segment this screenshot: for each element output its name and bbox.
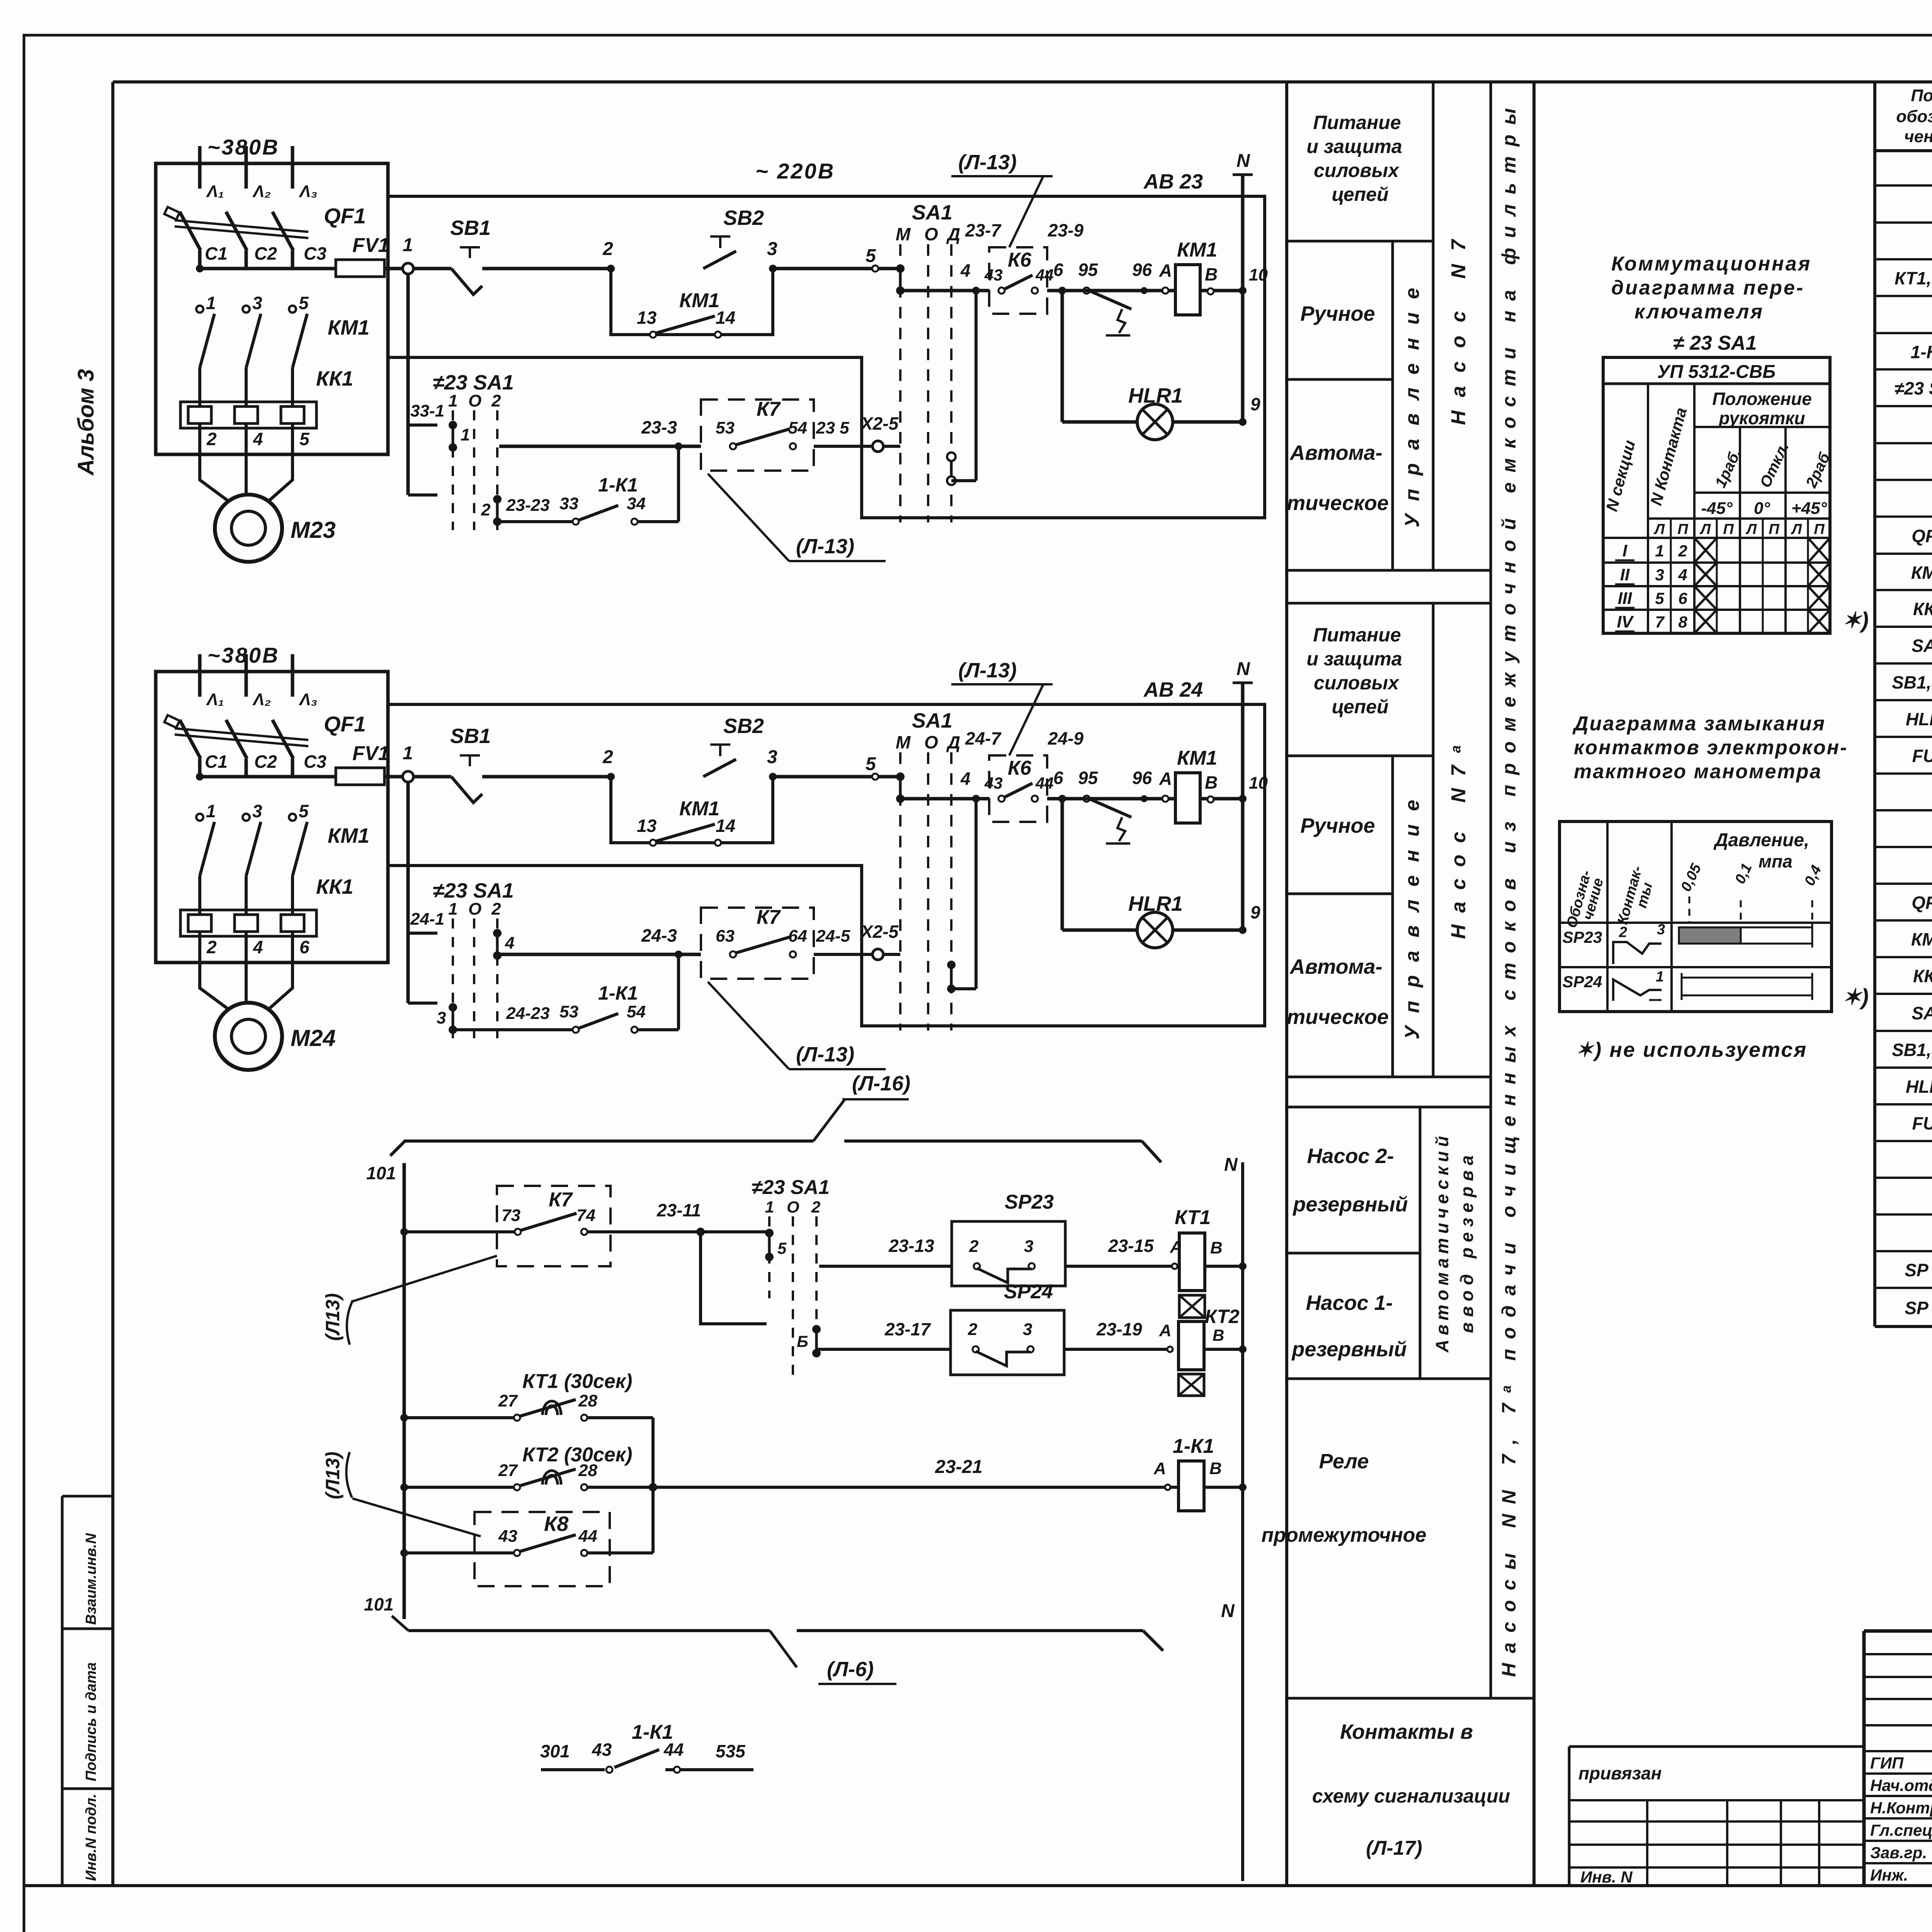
svg-text:SВ2: SВ2 bbox=[723, 206, 764, 230]
svg-text:Н.Контр: Н.Контр bbox=[1870, 1799, 1932, 1817]
svg-text:N: N bbox=[1236, 151, 1250, 171]
svg-text:24-3: 24-3 bbox=[641, 925, 677, 946]
svg-text:96: 96 bbox=[1132, 768, 1152, 788]
svg-text:SР 23: SР 23 bbox=[1905, 1260, 1932, 1280]
svg-text:контактов электрокон-: контактов электрокон- bbox=[1574, 736, 1848, 759]
node 4 junction М24 bbox=[972, 795, 980, 803]
svg-text:Насос 2-: Насос 2- bbox=[1307, 1145, 1394, 1168]
svg-text:П: П bbox=[1769, 521, 1779, 537]
pressure switch SP23 box bbox=[952, 1221, 1065, 1286]
svg-text:14: 14 bbox=[716, 816, 735, 836]
SA1 contact M М24 bbox=[896, 772, 905, 781]
svg-text:и защита: и защита bbox=[1306, 136, 1402, 157]
svg-text:Л: Л bbox=[1653, 521, 1665, 537]
svg-text:Питание: Питание bbox=[1313, 624, 1401, 646]
svg-text:43: 43 bbox=[984, 774, 1003, 792]
svg-text:Автома-: Автома- bbox=[1289, 955, 1382, 978]
svg-text:4: 4 bbox=[253, 937, 263, 957]
label column grid bbox=[1285, 82, 1288, 1886]
svg-text:КМ1: КМ1 bbox=[679, 798, 719, 820]
svg-text:резервный: резервный bbox=[1292, 1193, 1408, 1216]
power enclosure box М24 bbox=[156, 672, 388, 963]
SA1 contact D М23 bbox=[947, 452, 956, 461]
svg-text:34: 34 bbox=[627, 494, 646, 513]
svg-text:силовых: силовых bbox=[1314, 160, 1400, 181]
svg-text:(Л-13): (Л-13) bbox=[796, 1043, 854, 1066]
svg-text:3: 3 bbox=[1655, 566, 1664, 584]
node 2 М24 bbox=[607, 773, 615, 781]
svg-text:Λ₃: Λ₃ bbox=[299, 690, 317, 709]
svg-text:101: 101 bbox=[364, 1594, 394, 1614]
switch diagram position columns bbox=[1739, 427, 1741, 633]
svg-text:4: 4 bbox=[960, 769, 971, 789]
wire C1 bus to fuse М23 bbox=[196, 265, 204, 272]
svg-text:N: N bbox=[1236, 659, 1250, 679]
wires to motor М23 bbox=[200, 454, 228, 501]
switch diagram L/P subcolumns bbox=[1670, 519, 1672, 633]
wire C1 bus to fuse М24 bbox=[196, 773, 204, 781]
svg-text:101: 101 bbox=[366, 1163, 396, 1183]
svg-text:М: М bbox=[896, 732, 911, 752]
svg-text:Л: Л bbox=[1699, 521, 1711, 537]
svg-text:(Л-13): (Л-13) bbox=[958, 659, 1017, 682]
svg-text:2: 2 bbox=[602, 239, 613, 259]
manometer diagram table frame bbox=[1560, 821, 1832, 1012]
svg-text:Ручное: Ручное bbox=[1300, 302, 1375, 325]
node 6 М23 bbox=[1058, 287, 1066, 294]
relay contact K6 dashed box М24 bbox=[989, 755, 1047, 822]
SA1 contact D М24 bbox=[947, 961, 956, 969]
svg-text:Автоматический: Автоматический bbox=[1432, 1136, 1452, 1353]
svg-text:КТ1,КТ2: КТ1,КТ2 bbox=[1895, 268, 1932, 288]
svg-text:23-11: 23-11 bbox=[656, 1200, 701, 1220]
svg-text:П: П bbox=[1677, 521, 1688, 537]
title block small revision rows bbox=[1864, 1653, 1932, 1655]
wire 23-19 bbox=[1064, 1348, 1173, 1351]
svg-text:Насос 1-: Насос 1- bbox=[1306, 1291, 1393, 1315]
svg-text:АВ 24: АВ 24 bbox=[1143, 678, 1203, 701]
svg-text:НLR1: НLR1 bbox=[1906, 1077, 1932, 1097]
svg-text:SА1: SА1 bbox=[1912, 1003, 1932, 1023]
svg-text:23-3: 23-3 bbox=[641, 417, 677, 437]
svg-text:24-9: 24-9 bbox=[1048, 728, 1083, 748]
svg-text:А: А bbox=[1153, 1459, 1166, 1478]
svg-text:Диаграмма замыкания: Диаграмма замыкания bbox=[1572, 713, 1826, 735]
svg-text:КМ1: КМ1 bbox=[1177, 747, 1217, 769]
svg-text:тактного манометра: тактного манометра bbox=[1574, 760, 1822, 783]
inner frame bottom line bbox=[24, 1884, 1932, 1887]
contactor KM1 main contacts М23 bbox=[196, 306, 203, 313]
node KT rows junction bbox=[649, 1483, 657, 1492]
svg-text:6: 6 bbox=[1053, 768, 1063, 788]
svg-text:13: 13 bbox=[637, 816, 657, 836]
svg-text:2: 2 bbox=[811, 1198, 820, 1216]
pressure switch SP24 box bbox=[951, 1310, 1064, 1375]
svg-text:43: 43 bbox=[984, 266, 1003, 284]
svg-text:Насос N7ᵃ: Насос N7ᵃ bbox=[1447, 745, 1470, 939]
svg-text:КТ1 (30сек): КТ1 (30сек) bbox=[522, 1370, 632, 1393]
svg-text:1-К1: 1-К1 bbox=[1911, 342, 1932, 362]
svg-text:В: В bbox=[1209, 1459, 1222, 1478]
svg-text:≠23 SА1: ≠23 SА1 bbox=[433, 371, 514, 394]
svg-text:2: 2 bbox=[206, 429, 217, 449]
svg-text:(Л-13): (Л-13) bbox=[796, 535, 854, 558]
svg-text:(Л-6): (Л-6) bbox=[827, 1658, 874, 1681]
svg-text:SР24: SР24 bbox=[1563, 973, 1602, 991]
relay contact K7 dashed box М24 bbox=[701, 908, 814, 979]
svg-text:Нач.отд.: Нач.отд. bbox=[1870, 1776, 1932, 1794]
svg-text:3: 3 bbox=[1024, 1237, 1033, 1256]
svg-text:44: 44 bbox=[1035, 266, 1054, 284]
svg-text:Коммутационная: Коммутационная bbox=[1611, 253, 1811, 275]
svg-text:резервный: резервный bbox=[1291, 1338, 1406, 1361]
inner frame top line bbox=[113, 80, 1932, 83]
K8 contact row bbox=[400, 1549, 408, 1557]
circuit breaker QF1 М24 bbox=[180, 720, 201, 759]
svg-text:~380В: ~380В bbox=[207, 643, 280, 667]
svg-text:О: О bbox=[787, 1198, 799, 1216]
svg-text:М: М bbox=[896, 224, 911, 244]
svg-text:Альбом 3: Альбом 3 bbox=[73, 369, 99, 476]
svg-text:23 5: 23 5 bbox=[816, 418, 849, 437]
svg-text:II: II bbox=[1620, 565, 1630, 584]
svg-text:Л: Л bbox=[1745, 521, 1757, 537]
23SA1 upper contact М23 bbox=[449, 421, 457, 429]
wires to motor М24 bbox=[200, 963, 228, 1009]
svg-text:SВ1: SВ1 bbox=[450, 216, 491, 240]
svg-text:4: 4 bbox=[960, 260, 971, 281]
svg-text:27: 27 bbox=[498, 1391, 518, 1410]
svg-text:6: 6 bbox=[1678, 589, 1687, 607]
svg-text:УП 5312-СВБ: УП 5312-СВБ bbox=[1657, 362, 1776, 382]
interlock contact 1-K1 branch М24 bbox=[453, 1028, 576, 1031]
svg-text:SА1: SА1 bbox=[912, 709, 952, 732]
svg-text:10: 10 bbox=[1249, 774, 1268, 793]
svg-text:М23: М23 bbox=[291, 517, 336, 543]
node 5 М24 bbox=[872, 774, 878, 780]
relay contact K6 dashed box М23 bbox=[989, 247, 1047, 314]
title block signature rows bbox=[1864, 1750, 1932, 1752]
svg-text:5: 5 bbox=[299, 429, 310, 449]
svg-text:QF1: QF1 bbox=[1912, 893, 1932, 913]
svg-text:I: I bbox=[1622, 541, 1628, 560]
svg-text:1-К1: 1-К1 bbox=[598, 474, 638, 496]
svg-text:6: 6 bbox=[1053, 260, 1063, 280]
svg-text:КМ1: КМ1 bbox=[328, 316, 369, 339]
svg-text:Давление,: Давление, bbox=[1713, 830, 1810, 850]
switch diagram table frame bbox=[1603, 357, 1830, 633]
svg-text:N: N bbox=[1221, 1601, 1235, 1621]
svg-text:SВ1: SВ1 bbox=[450, 724, 491, 748]
svg-text:~ 220В: ~ 220В bbox=[755, 159, 835, 183]
svg-text:33: 33 bbox=[560, 494, 578, 513]
wire 23-21 long bbox=[653, 1486, 1179, 1489]
svg-text:КК1: КК1 bbox=[1913, 599, 1932, 619]
svg-text:Инж.: Инж. bbox=[1870, 1866, 1908, 1884]
svg-text:6: 6 bbox=[299, 937, 310, 957]
svg-text:Λ₂: Λ₂ bbox=[252, 690, 271, 709]
svg-text:К7: К7 bbox=[757, 398, 781, 420]
svg-text:7: 7 bbox=[1655, 613, 1665, 631]
svg-text:5: 5 bbox=[866, 246, 876, 266]
svg-text:В: В bbox=[1210, 1238, 1223, 1257]
svg-text:Д: Д bbox=[946, 224, 960, 244]
svg-text:1: 1 bbox=[1656, 969, 1664, 985]
node 9 М24 bbox=[1239, 926, 1247, 934]
svg-text:ГИП: ГИП bbox=[1870, 1754, 1904, 1772]
svg-text:Х2-5: Х2-5 bbox=[860, 922, 899, 942]
svg-text:КК1: КК1 bbox=[316, 367, 353, 390]
svg-text:1: 1 bbox=[448, 391, 457, 410]
23SA1 upper contact М24 bbox=[493, 929, 502, 937]
svg-text:Λ₂: Λ₂ bbox=[252, 182, 271, 201]
svg-text:95: 95 bbox=[1078, 768, 1099, 788]
svg-text:Λ₃: Λ₃ bbox=[299, 182, 317, 201]
svg-text:SР 24: SР 24 bbox=[1905, 1298, 1932, 1318]
inner frame left line bbox=[111, 82, 114, 1886]
svg-text:КМ1: КМ1 bbox=[1911, 929, 1932, 949]
svg-text:тическое: тическое bbox=[1287, 1005, 1389, 1029]
svg-text:1: 1 bbox=[765, 1198, 774, 1216]
svg-text:III: III bbox=[1618, 589, 1632, 608]
left margin stamp column bbox=[61, 1496, 64, 1886]
node 23-11 bbox=[696, 1228, 705, 1236]
svg-text:8: 8 bbox=[1678, 613, 1687, 631]
svg-text:Б: Б bbox=[797, 1332, 808, 1350]
svg-text:тическое: тическое bbox=[1287, 492, 1389, 515]
svg-text:КМ1: КМ1 bbox=[328, 824, 369, 847]
svg-text:23-21: 23-21 bbox=[935, 1457, 983, 1477]
automatic control line М23 bbox=[499, 445, 701, 448]
node 2 М23 bbox=[607, 265, 615, 272]
23SA1 contact 5 (block3) bbox=[765, 1229, 774, 1237]
svg-text:~380В: ~380В bbox=[207, 135, 280, 159]
svg-text:КМ1: КМ1 bbox=[1177, 239, 1217, 261]
svg-text:SР23: SР23 bbox=[1005, 1191, 1054, 1213]
wire 23-15 bbox=[1065, 1265, 1179, 1268]
svg-text:3: 3 bbox=[252, 293, 262, 313]
switch diagram section rows bbox=[1603, 561, 1830, 564]
node 3 М23 bbox=[769, 265, 777, 272]
svg-text:23-7: 23-7 bbox=[965, 220, 1002, 240]
svg-text:С1: С1 bbox=[205, 243, 228, 264]
svg-text:НLR1: НLR1 bbox=[1906, 709, 1932, 729]
svg-text:-45°: -45° bbox=[1701, 499, 1733, 518]
svg-text:К7: К7 bbox=[757, 906, 781, 929]
power enclosure box М23 bbox=[156, 163, 388, 454]
svg-text:301: 301 bbox=[540, 1741, 570, 1761]
svg-text:✶): ✶) bbox=[1842, 985, 1869, 1010]
bus L-6 bottom line bbox=[408, 1629, 770, 1632]
svg-text:33-1: 33-1 bbox=[410, 401, 444, 420]
manometer diagram SP24 bar bbox=[1682, 978, 1812, 995]
svg-text:К8: К8 bbox=[544, 1512, 568, 1536]
svg-text:схему сигнализации: схему сигнализации bbox=[1312, 1785, 1510, 1807]
svg-text:(Л-16): (Л-16) bbox=[852, 1072, 910, 1095]
svg-text:1: 1 bbox=[403, 235, 413, 255]
svg-text:привязан: привязан bbox=[1578, 1763, 1662, 1783]
svg-text:535: 535 bbox=[716, 1741, 746, 1761]
svg-text:В: В bbox=[1213, 1326, 1224, 1344]
svg-text:QF1: QF1 bbox=[324, 204, 366, 228]
svg-text:(Л-17): (Л-17) bbox=[1366, 1837, 1422, 1859]
svg-text:Λ₁: Λ₁ bbox=[206, 182, 224, 201]
svg-text:5: 5 bbox=[299, 293, 309, 313]
svg-text:≠ 23 SА1: ≠ 23 SА1 bbox=[1673, 332, 1757, 354]
relay contact K7 dashed box (block3) bbox=[497, 1186, 611, 1266]
svg-text:1: 1 bbox=[1655, 542, 1664, 560]
svg-text:3: 3 bbox=[252, 801, 262, 821]
svg-text:SА1: SА1 bbox=[1912, 636, 1932, 656]
svg-text:1: 1 bbox=[403, 743, 413, 764]
svg-text:обозна-: обозна- bbox=[1896, 107, 1932, 126]
svg-text:27: 27 bbox=[498, 1461, 518, 1480]
circuit breaker QF1 М23 bbox=[180, 212, 201, 250]
svg-text:24-7: 24-7 bbox=[965, 728, 1002, 748]
svg-text:73: 73 bbox=[502, 1206, 520, 1225]
node 4 junction М23 bbox=[972, 287, 980, 294]
KM1 aux contact 13-14 branch М24 bbox=[611, 777, 773, 843]
svg-text:Взаим.инв.N: Взаим.инв.N bbox=[83, 1532, 99, 1625]
svg-text:QF1: QF1 bbox=[324, 712, 366, 736]
wire 23-13 row bbox=[819, 1265, 952, 1268]
svg-text:23-9: 23-9 bbox=[1048, 220, 1083, 240]
svg-text:74: 74 bbox=[577, 1206, 595, 1225]
node 1 М24 bbox=[403, 771, 413, 782]
svg-text:КМ1: КМ1 bbox=[679, 289, 719, 312]
svg-text:43: 43 bbox=[592, 1740, 612, 1760]
svg-text:К7: К7 bbox=[549, 1189, 573, 1211]
svg-text:SР24: SР24 bbox=[1004, 1281, 1053, 1303]
wire down from 23-11 bbox=[701, 1232, 767, 1324]
svg-text:Поз.: Поз. bbox=[1911, 86, 1932, 105]
23SA1 lower contact М24 bbox=[449, 1003, 457, 1012]
svg-text:1: 1 bbox=[206, 293, 216, 313]
relay contact K7 dashed box М23 bbox=[701, 400, 814, 471]
svg-text:мпа: мпа bbox=[1759, 851, 1793, 871]
svg-text:М24: М24 bbox=[291, 1025, 336, 1051]
automatic control line М24 bbox=[499, 953, 701, 956]
svg-text:24-23: 24-23 bbox=[506, 1004, 550, 1023]
svg-text:43: 43 bbox=[498, 1527, 517, 1546]
svg-text:44: 44 bbox=[1035, 774, 1054, 792]
svg-text:QF1: QF1 bbox=[1912, 526, 1932, 546]
bus L-16 top line bbox=[390, 1141, 813, 1156]
svg-text:и защита: и защита bbox=[1306, 648, 1402, 670]
svg-text:1-К1: 1-К1 bbox=[1173, 1435, 1214, 1458]
svg-text:цепей: цепей bbox=[1332, 184, 1388, 205]
svg-text:FV1: FV1 bbox=[352, 742, 389, 765]
svg-text:9: 9 bbox=[1250, 902, 1260, 922]
svg-text:А: А bbox=[1159, 260, 1172, 281]
svg-text:54: 54 bbox=[627, 1002, 646, 1021]
svg-text:промежуточное: промежуточное bbox=[1262, 1524, 1427, 1546]
svg-text:4: 4 bbox=[505, 934, 514, 952]
left bus 101 bbox=[403, 1163, 406, 1619]
svg-text:≠23 SА1: ≠23 SА1 bbox=[433, 879, 514, 902]
svg-text:N: N bbox=[1224, 1155, 1238, 1175]
svg-text:Положение: Положение bbox=[1712, 389, 1812, 409]
svg-text:44: 44 bbox=[578, 1527, 597, 1546]
23SA1 contact 6 (block3) bbox=[812, 1325, 821, 1333]
contactor KM1 main contacts М24 bbox=[196, 814, 203, 821]
svg-text:SВ2: SВ2 bbox=[723, 714, 764, 738]
manometer diagram rows bbox=[1560, 922, 1832, 924]
svg-text:3: 3 bbox=[767, 747, 777, 767]
svg-text:FV1: FV1 bbox=[352, 234, 389, 257]
svg-text:44: 44 bbox=[663, 1740, 684, 1760]
title block frame bbox=[1864, 1629, 1932, 1633]
relay contact K8 dashed box bbox=[474, 1512, 610, 1586]
svg-text:28: 28 bbox=[578, 1391, 597, 1410]
svg-text:FU1: FU1 bbox=[1912, 746, 1932, 766]
svg-text:цепей: цепей bbox=[1332, 696, 1388, 718]
svg-text:Контакты в: Контакты в bbox=[1340, 1720, 1473, 1743]
interlock contact 1-K1 branch М23 bbox=[497, 520, 576, 523]
svg-text:Инв.N подл.: Инв.N подл. bbox=[83, 1794, 99, 1881]
svg-text:К6: К6 bbox=[1008, 249, 1032, 271]
node 3 М24 bbox=[769, 773, 777, 781]
motor М24 bbox=[215, 1003, 282, 1070]
control enclosure АВ 24 bbox=[388, 704, 1265, 1026]
node 6 М24 bbox=[1058, 795, 1066, 803]
svg-text:А: А bbox=[1159, 1321, 1172, 1340]
svg-text:4: 4 bbox=[1678, 566, 1687, 584]
svg-text:О: О bbox=[924, 224, 938, 244]
svg-text:SА1: SА1 bbox=[912, 201, 952, 224]
svg-text:КТ1: КТ1 bbox=[1175, 1206, 1211, 1229]
svg-text:54: 54 bbox=[788, 418, 807, 437]
svg-text:3: 3 bbox=[437, 1009, 446, 1027]
svg-text:SВ1,SВ2: SВ1,SВ2 bbox=[1892, 1040, 1932, 1060]
svg-text:диаграмма пере-: диаграмма пере- bbox=[1611, 277, 1804, 299]
svg-text:5: 5 bbox=[1655, 589, 1664, 607]
svg-text:(Л-13): (Л-13) bbox=[958, 151, 1017, 174]
svg-text:53: 53 bbox=[716, 418, 735, 437]
svg-text:2: 2 bbox=[1678, 542, 1687, 560]
svg-text:✶): ✶) bbox=[1842, 608, 1869, 633]
svg-text:10: 10 bbox=[1249, 265, 1268, 284]
svg-text:✶) не используется: ✶) не используется bbox=[1576, 1038, 1807, 1061]
svg-text:2: 2 bbox=[491, 391, 501, 410]
svg-text:2: 2 bbox=[602, 747, 613, 767]
svg-text:SР23: SР23 bbox=[1563, 928, 1602, 946]
control enclosure АВ 23 bbox=[388, 196, 1265, 518]
svg-text:+45°: +45° bbox=[1791, 499, 1827, 518]
motor М23 bbox=[215, 495, 282, 562]
pushbutton SB1 М24 bbox=[413, 775, 451, 779]
svg-text:1: 1 bbox=[461, 425, 470, 444]
svg-text:5: 5 bbox=[777, 1239, 787, 1257]
svg-text:П: П bbox=[1814, 521, 1825, 537]
node 10 М23 bbox=[1239, 287, 1247, 294]
svg-text:28: 28 bbox=[578, 1461, 597, 1480]
svg-text:С1: С1 bbox=[205, 752, 228, 772]
svg-text:В: В bbox=[1205, 772, 1218, 793]
svg-text:95: 95 bbox=[1078, 260, 1099, 280]
svg-text:Д: Д bbox=[946, 732, 960, 752]
svg-text:КТ2: КТ2 bbox=[1205, 1306, 1240, 1327]
svg-text:КМ1: КМ1 bbox=[1911, 563, 1932, 583]
svg-text:Подпись и дата: Подпись и дата bbox=[83, 1662, 99, 1781]
svg-text:КК1: КК1 bbox=[316, 875, 353, 898]
node 5 М23 bbox=[872, 265, 878, 272]
svg-text:3: 3 bbox=[767, 239, 777, 259]
svg-text:силовых: силовых bbox=[1314, 672, 1400, 694]
parts table outer grid bbox=[1873, 82, 1876, 1327]
svg-text:≠23 SА1: ≠23 SА1 bbox=[752, 1176, 830, 1199]
svg-text:3: 3 bbox=[1657, 922, 1665, 938]
